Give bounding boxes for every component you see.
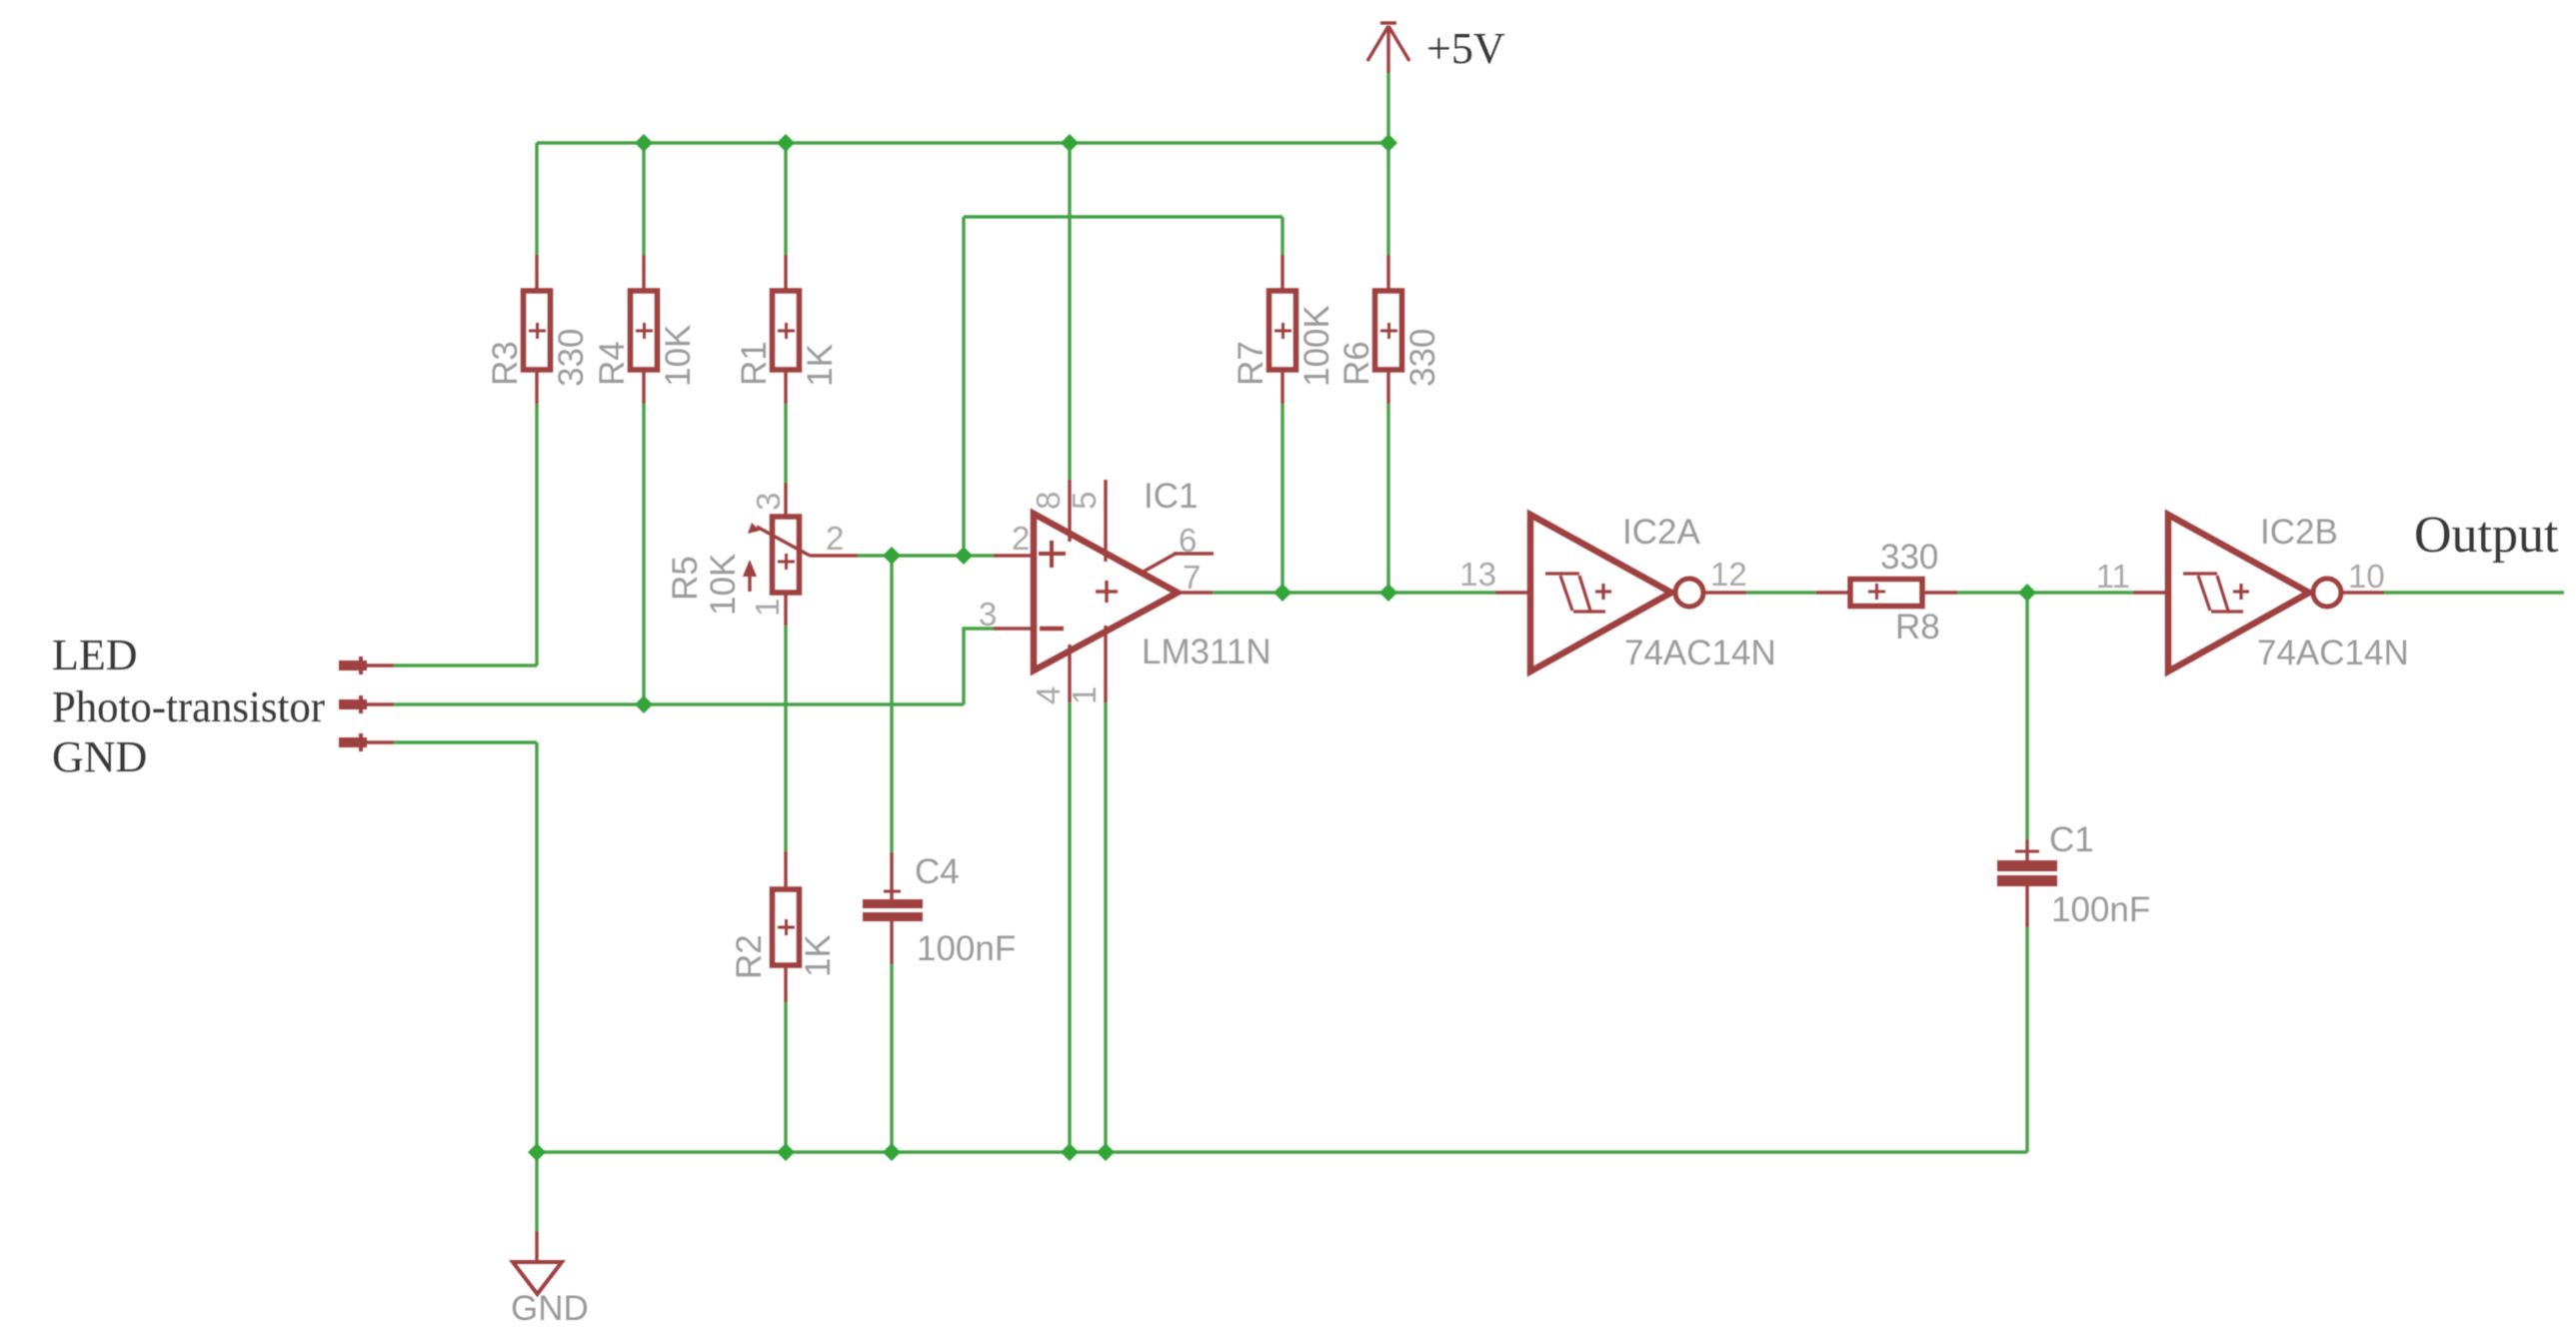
wire feedback horizontal y=217 [964,215,1283,218]
svg-text:3: 3 [750,493,787,511]
svg-text:12: 12 [1710,556,1747,593]
wire IC2A out to R8 [1746,591,1816,594]
resistor R1 [773,255,800,404]
connector pin Photo-transistor [339,695,367,713]
capacitor C1 [2015,839,2039,927]
IC1 pin 1 stub [1104,626,1107,702]
svg-text:GND: GND [52,732,147,781]
svg-text:+5V: +5V [1426,24,1505,73]
IC2B pin 11 stub [2133,591,2168,594]
wire R4 column x=644 bus down to resistor [642,143,645,255]
svg-text:R8: R8 [1895,608,1940,647]
svg-text:10K: 10K [704,554,743,616]
svg-text:330: 330 [552,329,591,387]
wire R7 top [1281,217,1284,255]
svg-text:R6: R6 [1337,341,1376,386]
junction rail R2 [777,1143,795,1161]
IC2A pin 12 stub [1703,591,1746,594]
wire photo jog up x=917 to IC1 pin3 [964,629,995,704]
svg-text:IC2B: IC2B [2260,513,2338,552]
inverter IC2B 74AC14N [2168,515,2309,671]
wire bottom rail y=1153 [537,1150,2027,1153]
svg-text:74AC14N: 74AC14N [1624,634,1776,672]
wire GND symbol stub [535,1152,538,1231]
svg-text:100nF: 100nF [917,929,1016,968]
wire output line IC1 to IC2A [1213,591,1495,594]
pot adjust arrowhead [743,560,757,577]
IC1 pin 7 stub [1178,591,1213,594]
svg-text:C4: C4 [915,852,960,891]
IC1 pin 2 stub [994,554,1034,557]
svg-text:Output: Output [2414,507,2559,564]
resistor R7 [1270,255,1296,404]
svg-text:100K: 100K [1297,305,1336,387]
svg-text:R5: R5 [666,556,705,601]
svg-text:6: 6 [1179,522,1197,559]
IC2B pin 10 stub [2341,591,2384,594]
svg-text:74AC14N: 74AC14N [2257,634,2409,672]
svg-text:1K: 1K [801,344,840,387]
IC1 pin 6 stub [1142,554,1214,573]
svg-text:IC1: IC1 [1144,477,1198,516]
svg-text:2: 2 [826,520,844,557]
junction rail GND [528,1143,546,1161]
svg-text:R2: R2 [730,934,769,979]
inverter IC2A 74AC14N [1530,515,1671,671]
svg-text:R4: R4 [593,341,632,386]
svg-text:1K: 1K [799,934,838,977]
svg-text:R1: R1 [735,341,774,386]
svg-text:100nF: 100nF [2051,890,2150,929]
svg-text:330: 330 [1403,329,1442,387]
IC1 input - marker [1040,627,1064,632]
junction C1 tap [2018,584,2036,602]
svg-text:1: 1 [749,599,786,617]
wire +5V column x=1389 [1386,73,1389,143]
svg-text:LED: LED [52,631,138,679]
capacitor C4 [884,852,901,964]
svg-text:C1: C1 [2049,820,2094,859]
wire GND pin y=753 [394,740,537,743]
junction photo R4 [635,695,653,713]
wire LED horizontal y=666 [394,664,537,667]
svg-text:2: 2 [1012,520,1030,557]
wire wiper net to IC1 pin2 [858,554,995,557]
IC2A hysteresis glyph [1545,574,1611,612]
wire R1 bottom to pot R5 top [784,404,787,483]
IC2B hysteresis glyph [2183,574,2249,612]
junction wiper feedback [955,547,973,565]
junction wiper C4 [883,547,901,565]
IC1 pin 8 stub [1068,480,1071,542]
resistor R3 [524,255,551,404]
svg-text:3: 3 [979,596,997,633]
wire R8 to IC2B with C1 tap [1957,591,2133,594]
wire R6 column top [1386,143,1389,255]
wire C4 bottom to rail [890,964,893,1152]
wire GND column x=537 down [535,742,538,1152]
svg-text:IC2A: IC2A [1622,513,1700,552]
wire R2 bottom to rail [784,1002,787,1152]
junction rail C4 [883,1143,901,1161]
op-amp IC1 LM311N [1034,514,1178,670]
wire photo-transistor y=710 [394,702,964,705]
wire R3 column x=537 bus down to resistor [535,143,538,255]
IC1 pin 3 stub [994,627,1034,630]
resistor R4 [631,255,658,404]
svg-text:1: 1 [1066,686,1103,704]
junction bus +5V [1379,134,1397,152]
IC2A bubble [1675,579,1703,607]
junction bus pin8 [1061,134,1079,152]
wire pot pin1 down to R2 [784,626,787,851]
svg-text:10: 10 [2348,558,2385,595]
svg-text:7: 7 [1183,559,1201,596]
wire C1 bottom to rail [2025,927,2028,1152]
svg-text:GND: GND [511,1289,589,1328]
svg-text:4: 4 [1030,686,1067,704]
svg-text:5: 5 [1066,492,1103,510]
potentiometer R5 [750,483,858,626]
connector pin LED [339,657,367,674]
wire IC1 pin8 column from bus [1068,143,1071,480]
wire IC1 pin1 column to rail [1104,702,1107,1152]
supply +5V symbol [1367,23,1409,73]
connector pin GND [339,733,367,751]
IC2A pin 13 stub [1495,591,1530,594]
wire feedback vertical x=963 [962,217,965,556]
wire IC1 pin4 column to rail [1068,702,1071,1152]
wire R3 bottom to LED corner [535,404,538,666]
svg-text:330: 330 [1880,538,1938,577]
IC1 inner + marker [1096,581,1118,603]
svg-text:13: 13 [1459,556,1496,593]
IC1 pin 4 stub [1068,645,1071,702]
wire R6 bottom to output line [1386,404,1389,593]
svg-text:R7: R7 [1232,341,1271,386]
wire C4 top [890,556,893,852]
junction output R6 [1379,584,1397,602]
IC1 input + marker [1039,541,1066,568]
resistor R2 [773,851,800,1002]
wire R4 bottom down to photo-transistor line [642,404,645,704]
junction bus R1 [777,134,795,152]
junction output R7 [1274,584,1291,602]
junction rail pin4 [1061,1143,1079,1161]
wire R1 column x=786 bus down to resistor [784,143,787,255]
wire R7 bottom to output line [1281,404,1284,593]
ground symbol [513,1231,562,1294]
svg-text:10K: 10K [659,325,698,387]
C1 plates [1997,860,2057,871]
IC1 pin 5 stub [1104,480,1107,562]
svg-text:R3: R3 [486,341,525,386]
junction rail pin1 [1097,1143,1115,1161]
svg-text:LM311N: LM311N [1142,633,1272,671]
svg-text:Photo-transistor: Photo-transistor [52,682,325,731]
svg-text:8: 8 [1030,492,1067,510]
resistor R8 [1816,580,1957,607]
wire output to edge [2384,591,2564,594]
C4 plates [863,899,923,908]
junction bus R4 [635,134,653,152]
resistor R6 [1375,255,1402,404]
wire top +5V bus y=143 from x=537 to x=1389 [537,141,1388,144]
IC2B bubble [2313,579,2341,607]
svg-text:11: 11 [2096,558,2130,595]
wire C1 column down from junction [2025,593,2028,839]
pot wiper arrowhead [748,523,760,534]
